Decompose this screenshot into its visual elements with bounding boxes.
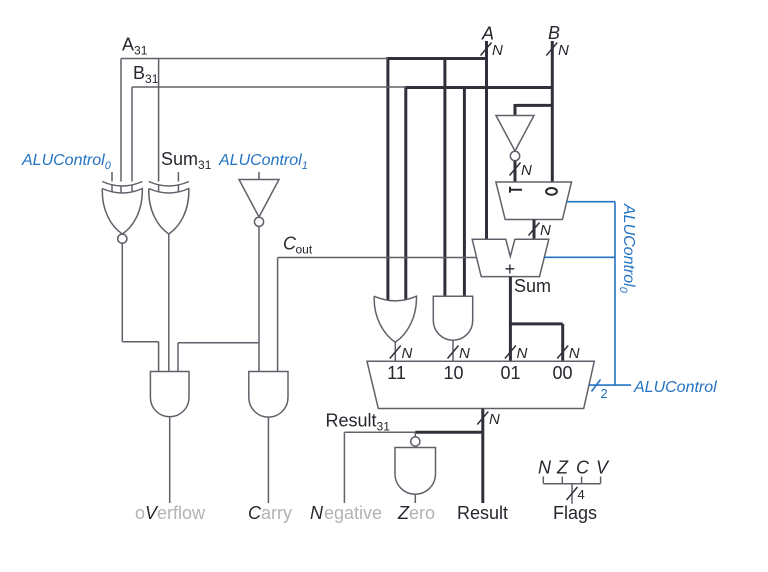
wire B to inverter [515,104,552,116]
wire XNOR output to overflow AND [122,243,158,371]
svg-text:4: 4 [578,487,585,502]
wire carry AND output [267,417,269,503]
bus width slash N on 10 input [448,345,471,362]
svg-text:ALUControl: ALUControl [633,379,717,396]
bus width slash N on notB [510,162,533,179]
wire OR to result mux input 11 [394,342,396,361]
wire Result31 tap to Negative [344,432,415,503]
and gate U10 (A and B) [433,296,472,340]
svg-text:egative: egative [324,503,382,523]
svg-text:N: N [540,222,551,239]
svg-text:A31: A31 [122,35,148,58]
xnor gate U1 (3-input XNOR for overflow) [102,182,142,244]
bus width slash N on 00 input [557,345,580,362]
wire ALUControl0 stub into XNOR [111,172,113,194]
svg-text:ALUControl0: ALUControl0 [617,203,637,294]
net ALUControl0 rotated label [617,203,637,294]
wire Cout from adder to carry AND [278,258,477,372]
svg-text:Result: Result [457,503,508,523]
net ALUControl label [633,379,717,396]
net Cout label [283,234,313,257]
svg-text:Z: Z [556,458,569,478]
output Result label [457,503,508,523]
svg-text:11: 11 [387,363,406,383]
zero detector U12 (NOR) [395,433,436,503]
svg-text:Sum: Sum [514,276,551,296]
svg-text:C: C [248,503,262,523]
wire inverter output to AND gates [178,226,259,371]
inverter U6 (not B) [496,116,534,161]
blue wire ALUControl0 to mux select and adder cin [544,202,615,385]
wire overflow AND output [169,417,171,503]
wire B bus vertical and left branch [406,41,553,301]
net ALUControl0 label (left) [21,152,112,172]
bus width slash 4 on flags [567,487,585,502]
svg-text:Result31: Result31 [326,411,391,434]
node A label [481,24,494,44]
and gate U5 (carry) [249,372,288,418]
output Zero label [397,503,435,523]
svg-text:out: out [296,243,313,257]
bus width slash N on B [546,42,569,59]
svg-text:N: N [569,345,580,362]
blue wire ALUControl bus [589,384,631,386]
svg-text:N: N [310,503,324,523]
wire A bus vertical and left branch [388,41,487,301]
svg-text:o: o [135,503,145,523]
svg-text:00: 00 [552,363,572,383]
or gate U9 (A or B) [374,296,416,342]
bus width slash N on result [477,411,500,428]
bus width slash 2 on ALUControl [592,380,608,402]
svg-text:C: C [576,458,590,478]
output Carry label [248,503,292,523]
svg-text:N: N [558,42,569,59]
svg-text:B31: B31 [133,63,159,86]
svg-text:N: N [521,162,532,179]
svg-text:B: B [548,23,560,43]
svg-text:V: V [596,458,610,478]
svg-text:2: 2 [601,386,608,401]
svg-text:Sum31: Sum31 [161,149,212,172]
wire B31 tap [132,87,406,194]
and gate U4 (overflow) [150,372,189,417]
svg-text:N: N [459,345,470,362]
svg-text:A: A [481,24,494,44]
wire result mux output [481,409,484,504]
output Flags label [553,503,597,523]
svg-text:10: 10 [443,363,463,383]
node A31 label [122,35,148,58]
wire Sum31 stub into XOR [177,172,179,194]
wire result bus into zero detector [415,431,483,434]
output Negative label [310,503,382,523]
net Result31 label [326,411,391,434]
bus width slash N on 11 input [390,345,413,362]
svg-text:N: N [492,42,503,59]
bus width slash N on mux output [529,222,552,239]
svg-text:ALUControl1: ALUControl1 [218,152,308,172]
svg-text:01: 01 [500,363,520,383]
net ALUControl1 label [218,152,308,172]
svg-text:ero: ero [409,503,435,523]
xor gate U2 (A31 xor Sum31) [149,182,189,235]
mux U7 (2:1 B / notB select) [496,182,572,220]
inverter U3 (not ALUControl1) [239,172,279,226]
flag bit labels N Z C V [538,458,610,478]
node B31 label [133,63,159,86]
svg-text:ALUControl0: ALUControl0 [21,152,112,172]
wire Sum output [510,277,562,362]
svg-text:N: N [538,458,552,478]
bus width slash N on 01 input [505,345,528,362]
svg-text:N: N [489,411,500,428]
wire AND to result mux input 10 [452,340,454,361]
mux U11 (4:1 result mux) [367,361,594,408]
svg-text:arry: arry [261,503,292,523]
svg-text:Flags: Flags [553,503,597,523]
node B label [548,23,560,43]
wire XOR output to overflow AND [168,234,170,372]
wire mux output to adder [533,220,536,240]
wire A31 tap [121,59,388,195]
bus width slash N on A [481,42,504,59]
output oVerflow label [135,503,206,523]
wire notB to mux [514,161,517,182]
svg-text:N: N [402,345,413,362]
net Sum31 label [161,149,212,172]
adder U8 [472,239,549,279]
flags combiner bracket [543,477,600,504]
net Sum label [514,276,551,296]
svg-text:N: N [517,345,528,362]
svg-text:erflow: erflow [157,503,206,523]
